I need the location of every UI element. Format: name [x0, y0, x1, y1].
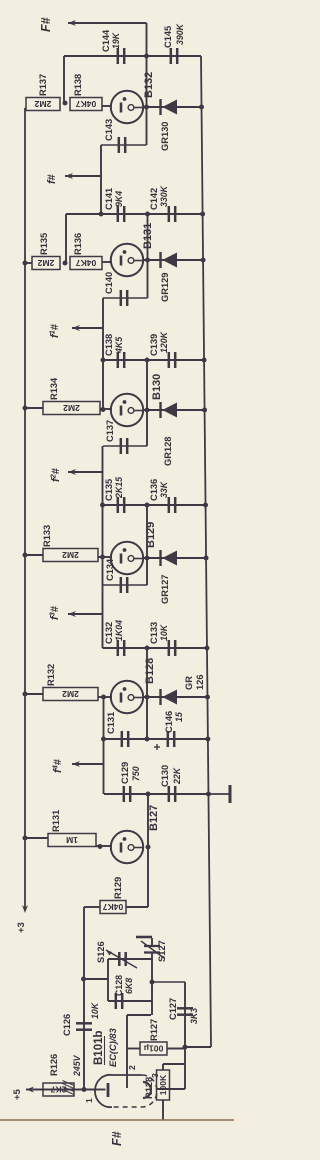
svg-text:001μ: 001μ [144, 1044, 164, 1054]
svg-text:1: 1 [84, 1098, 94, 1103]
capacitor C134 coupling drop [103, 577, 148, 593]
node grid-C126 [82, 1087, 87, 1092]
wire ground bus (bottom) [201, 56, 211, 1047]
wire R128 right [163, 1064, 185, 1070]
node base B129 [100, 555, 105, 560]
svg-text:390K: 390K [175, 23, 185, 45]
svg-text:R137: R137 [38, 74, 48, 96]
svg-text:R131: R131 [51, 810, 61, 832]
label B128 [144, 658, 156, 684]
node collector-C146 [145, 737, 150, 742]
svg-text:10K: 10K [90, 1002, 100, 1019]
wire tap F# [68, 22, 147, 24]
svg-text:2: 2 [127, 1065, 137, 1070]
resistor R133 [43, 549, 98, 562]
svg-text:750: 750 [131, 766, 141, 781]
node signal-drop tee B129 [100, 503, 105, 508]
wire F# branch [146, 23, 148, 56]
label B101b [93, 1030, 105, 1065]
svg-text:245V: 245V [72, 1054, 82, 1077]
wire R138 to base B132 [102, 105, 112, 107]
wire signal line f4 (B127 to B128 base) [103, 697, 105, 794]
node junction 113-185 [183, 1045, 188, 1050]
svg-text:R127: R127 [149, 1019, 159, 1041]
wire C126 line [83, 907, 85, 1090]
wire bus corner into R137 [25, 107, 26, 109]
wire R129 corner [83, 906, 85, 908]
svg-text:GR: GR [184, 676, 194, 690]
label C144 [101, 29, 121, 52]
svg-text:GR129: GR129 [160, 273, 170, 302]
arrowhead +3 bus left end [22, 905, 28, 913]
resistor R132 [43, 688, 98, 701]
svg-text:126: 126 [195, 674, 205, 690]
svg-text:6K8: 6K8 [124, 978, 134, 994]
label B127 [148, 805, 160, 831]
svg-text:R135: R135 [39, 233, 49, 255]
capacitor C129 [124, 786, 130, 802]
wire drop C132/C133 [103, 647, 207, 649]
wire box right edge [108, 958, 152, 960]
svg-text:C141: C141 [104, 188, 114, 210]
wire collector line B130 [146, 360, 148, 446]
label C130 [160, 765, 182, 787]
svg-text:S127: S127 [157, 940, 167, 962]
diode GR130 [161, 99, 178, 115]
capacitor C146 [168, 731, 174, 747]
trimmer S127 [141, 941, 164, 958]
hatch R126 [63, 1081, 75, 1095]
wire rail up to pin2 [127, 1014, 151, 1016]
svg-text:S126: S126 [96, 941, 106, 963]
node bus-R131 [23, 836, 28, 841]
svg-text:04K7: 04K7 [76, 99, 97, 109]
transistor B128 [111, 681, 143, 713]
label C126 [62, 1014, 72, 1036]
label R133 [42, 525, 52, 547]
label R137 [38, 74, 48, 96]
svg-text:C131: C131 [106, 712, 116, 734]
resistor R137 [26, 98, 60, 111]
svg-text:B127: B127 [148, 805, 160, 831]
wire signal line f (B131 to C143) [100, 145, 102, 214]
capacitor C139 [169, 352, 175, 368]
trimmer S126 [106, 950, 137, 968]
label GR126 [184, 674, 205, 690]
svg-text:+3: +3 [16, 922, 27, 933]
capacitor C138 [118, 352, 124, 368]
polarity mark C146 [154, 744, 160, 750]
tube grid bar [107, 1083, 110, 1097]
svg-text:R134: R134 [49, 377, 59, 400]
diode GR127 [161, 550, 178, 566]
node drop signal junction B131 [99, 212, 104, 217]
wire collector to diode [143, 106, 202, 108]
label C145 [163, 23, 185, 48]
node junction R137/R138 [63, 101, 68, 106]
node diode-bus GR128 [202, 408, 207, 413]
diode GR128 [161, 402, 178, 418]
wire R132 to base B128 [98, 696, 112, 698]
svg-text:C126: C126 [62, 1014, 72, 1036]
node base B128 [101, 695, 106, 700]
resistor R128 [157, 1070, 170, 1100]
node bus-R135 [23, 261, 28, 266]
wire junction to drop (B131) [65, 214, 67, 263]
svg-text:R136: R136 [73, 233, 83, 255]
svg-text:330K: 330K [159, 185, 169, 207]
svg-text:C128: C128 [114, 975, 124, 996]
wire S127drop [152, 981, 185, 983]
svg-text:B132: B132 [143, 72, 155, 98]
node collector B130 [145, 408, 150, 413]
node rail-link [81, 977, 86, 982]
svg-text:R126: R126 [49, 1054, 59, 1076]
svg-text:1K04: 1K04 [114, 620, 124, 641]
arrowhead tap f1# [72, 325, 80, 331]
wire drop C135/C136 [103, 504, 206, 506]
label R132 [46, 664, 56, 686]
tube anode bracket [143, 1082, 151, 1098]
wire tap f# [65, 175, 101, 177]
node drop-bus B129 [203, 503, 208, 508]
resistor R135 [32, 257, 60, 270]
wire grid entry [97, 1089, 106, 1091]
svg-text:2K15: 2K15 [114, 477, 124, 499]
wire bus to R135 [25, 262, 32, 264]
svg-text:C139: C139 [149, 334, 159, 356]
svg-text:GR130: GR130 [160, 122, 170, 151]
node collector-drop B130 [145, 358, 150, 363]
node drop-bus B127 [206, 792, 211, 797]
node collector-drop B132 [144, 54, 149, 59]
svg-text:C144: C144 [101, 29, 111, 52]
wire box top edge [107, 959, 109, 1001]
label pin 2 [127, 1065, 137, 1070]
label C139 [149, 331, 169, 356]
svg-text:04K7: 04K7 [103, 902, 124, 912]
wire bus to R134 [25, 407, 43, 409]
resistor R138 [70, 98, 102, 111]
label EC(C)/83 [108, 1027, 118, 1067]
svg-text:2M2: 2M2 [63, 403, 80, 413]
capacitor C141 [118, 206, 124, 222]
node collector B132 [144, 105, 149, 110]
wire pin2 line [126, 1015, 128, 1088]
wire collector line B131 [147, 214, 149, 298]
svg-text:1M: 1M [66, 835, 78, 845]
arrowhead tap F# [68, 20, 76, 26]
svg-text:04K7: 04K7 [76, 258, 97, 268]
svg-text:R129: R129 [113, 877, 123, 899]
node collector B128 [145, 695, 150, 700]
wire R129 top stub [84, 906, 100, 908]
wire pin3 [157, 1088, 185, 1090]
label R136 [73, 233, 83, 255]
capacitor C143 coupling drop [101, 137, 147, 153]
wire drop C129/C130 [104, 793, 208, 795]
capacitor C128 [116, 993, 122, 1009]
label f1# [48, 324, 62, 338]
node bus-R134 [23, 406, 28, 411]
diode GR129 [161, 252, 178, 268]
label f# [46, 174, 58, 184]
arrowhead tap f2# [68, 469, 76, 475]
wire bus to R133 [25, 554, 43, 556]
ground symbol [208, 785, 230, 803]
wire junction to drop (B132) [63, 56, 65, 103]
transistor B130 [111, 394, 143, 426]
label C137 [105, 420, 115, 442]
label B131 [142, 223, 154, 249]
label GR127 [160, 575, 170, 604]
svg-text:R133: R133 [42, 525, 52, 547]
node bus-R133 [23, 553, 28, 558]
label 6K8 [124, 978, 134, 994]
node C146-bus [205, 737, 210, 742]
wire R136 to base B131 [102, 261, 112, 263]
label +3 [16, 922, 27, 933]
node collector B131 [145, 258, 150, 263]
wire drop C138/C139 [103, 359, 205, 361]
wire signal line f1 (B130 base to C140) [102, 298, 104, 410]
wire drop C141/C142 [66, 213, 203, 215]
svg-text:19K: 19K [111, 32, 121, 49]
node collector B127 [146, 845, 151, 850]
svg-text:C133: C133 [149, 622, 159, 644]
wire bus to R131 [25, 837, 48, 839]
svg-text:C145: C145 [163, 26, 173, 48]
node base B130 [101, 407, 106, 412]
wire link rail to box [83, 978, 108, 980]
transistor B131 [111, 244, 143, 276]
label B129 [145, 522, 157, 548]
svg-text:B130: B130 [151, 374, 163, 400]
label f4# [51, 759, 65, 773]
label R126 [49, 1054, 59, 1076]
wire R131 to base B127 [96, 845, 112, 847]
resistor R126 [43, 1083, 74, 1096]
svg-text:C140: C140 [104, 272, 114, 294]
svg-text:2M2: 2M2 [62, 550, 79, 560]
capacitor C140 coupling drop [103, 290, 148, 306]
label 10K [90, 1002, 100, 1019]
svg-text:f4#: f4# [51, 759, 65, 773]
capacitor C135 [118, 497, 124, 513]
resistor R127 [140, 1042, 167, 1055]
wire collector line B127 [147, 794, 149, 907]
node drop-bus B131 [200, 212, 205, 217]
wire +3 supply bus (top) [24, 108, 26, 910]
capacitor C127 [177, 1008, 193, 1014]
transistor B127 [111, 831, 143, 863]
wire tap f1# [72, 327, 103, 329]
label 245V [72, 1054, 82, 1077]
node diode-bus GR129 [201, 258, 206, 263]
capacitor C144 [118, 48, 124, 64]
wire R128 left [162, 1100, 164, 1120]
capacitor C126 [76, 1023, 92, 1029]
resistor R134 [43, 402, 100, 415]
svg-text:C142: C142 [149, 188, 159, 210]
label GR130 [160, 122, 170, 151]
wire collector line B128 [146, 648, 148, 739]
svg-text:120K: 120K [159, 331, 169, 353]
node base B127 [98, 844, 103, 849]
svg-text:22K: 22K [172, 767, 182, 785]
wire R133 to base B129 [98, 556, 112, 558]
node drop-bus B130 [202, 358, 207, 363]
svg-text:F#: F# [110, 1131, 124, 1146]
node collector-drop B131 [145, 212, 150, 217]
svg-text:2K7: 2K7 [50, 1085, 66, 1095]
node collector B129 [145, 556, 150, 561]
svg-text:f2#: f2# [49, 468, 63, 482]
wire collector line B132 [146, 56, 148, 145]
resistor R129 [100, 901, 126, 914]
capacitor C133 [169, 640, 175, 656]
svg-text:100K: 100K [158, 1074, 168, 1095]
svg-text:C138: C138 [104, 334, 114, 356]
wire anode line y185 [184, 982, 186, 1089]
capacitor C132 [118, 640, 124, 656]
wire collector to diode [143, 557, 207, 559]
label C132 [104, 620, 124, 644]
svg-text:C136: C136 [149, 479, 159, 501]
label GR128 [163, 437, 173, 466]
svg-text:EC(C)/83: EC(C)/83 [108, 1027, 118, 1067]
label R127 [149, 1019, 159, 1041]
label C131 [106, 712, 116, 734]
label R138 [73, 74, 83, 96]
svg-text:+5: +5 [12, 1088, 23, 1100]
svg-text:C134: C134 [105, 558, 115, 581]
label S127 [157, 940, 167, 962]
capacitor C142 [169, 206, 175, 222]
svg-text:33K: 33K [159, 481, 169, 498]
capacitor C136 [169, 497, 175, 513]
label pin 1 [84, 1098, 94, 1103]
wire R129 to collector line [126, 906, 148, 908]
label C141 [104, 188, 124, 210]
svg-text:15: 15 [174, 712, 184, 722]
arrowhead tap f# [65, 173, 73, 179]
page margin line [0, 1119, 234, 1121]
capacitor C130 [169, 786, 175, 802]
label R129 [113, 877, 123, 899]
label f2# [49, 468, 63, 482]
wire collector line B129 [146, 505, 148, 585]
wire collector to diode [143, 409, 205, 411]
tube B101b envelope [95, 1075, 157, 1107]
wire drop to ground bus [185, 1046, 211, 1048]
svg-text:C135: C135 [104, 479, 114, 501]
label C143 [104, 119, 114, 141]
svg-text:C143: C143 [104, 119, 114, 141]
label F# output [39, 17, 53, 32]
wire tap f4# [72, 763, 104, 765]
label pin 3 [150, 1073, 160, 1078]
capacitor C131 [122, 731, 128, 747]
wire R127 stub bottom [167, 1048, 185, 1050]
svg-text:10K: 10K [159, 624, 169, 641]
svg-text:3K3: 3K3 [189, 1008, 199, 1024]
node signal-C131 tee [101, 737, 106, 742]
svg-text:B128: B128 [144, 658, 156, 684]
label C128 [114, 975, 124, 996]
svg-text:4K5: 4K5 [114, 337, 124, 354]
capacitor C137 coupling drop [103, 438, 147, 454]
wire bus to R132 [25, 693, 43, 695]
wire collector to diode [143, 696, 208, 698]
svg-text:2M2: 2M2 [62, 689, 79, 699]
svg-text:f1#: f1# [48, 324, 62, 338]
wire drop C144/C145 [64, 55, 201, 57]
label C136 [149, 479, 169, 501]
label C146 [164, 711, 184, 733]
label R128 [144, 1077, 154, 1099]
diode GR126 [161, 689, 178, 705]
wire R127 stub top [127, 1048, 140, 1050]
node collector-drop B127 [146, 792, 151, 797]
node collector-drop B129 [145, 503, 150, 508]
label GR129 [160, 273, 170, 302]
node diode-bus GR130 [199, 105, 204, 110]
node rail-S127drop [150, 980, 155, 985]
label C134 [105, 558, 115, 581]
svg-text:C130: C130 [160, 765, 170, 787]
label B130 [151, 374, 163, 400]
resistor R136 [70, 257, 102, 270]
wire coupling drop C131/C146 [104, 738, 208, 740]
label R134 [49, 377, 59, 400]
capacitor C145 [171, 48, 177, 64]
node diode-bus GR126 [205, 695, 210, 700]
label f3# [48, 606, 62, 620]
label C138 [104, 334, 124, 356]
wire collector to diode [143, 259, 204, 261]
wire tap f2# [68, 471, 103, 473]
label C129 [120, 762, 141, 784]
node drop-bus B128 [204, 646, 209, 651]
label C142 [149, 185, 169, 210]
label +5 [12, 1088, 23, 1100]
svg-text:C127: C127 [168, 998, 178, 1020]
label B132 [143, 72, 155, 98]
node bus-R132 [23, 692, 28, 697]
svg-text:R138: R138 [73, 74, 83, 96]
svg-text:GR128: GR128 [163, 437, 173, 466]
svg-text:C129: C129 [120, 762, 130, 784]
svg-text:9K4: 9K4 [114, 191, 124, 207]
node junction R135/R136 [63, 261, 68, 266]
label S126 [96, 941, 106, 963]
transistor B132 [111, 91, 143, 123]
transistor B129 [111, 542, 143, 574]
wire tap f3# [68, 613, 103, 615]
wire R134 to base B130 [100, 408, 112, 410]
label C127 [168, 998, 178, 1020]
label F# section [110, 1131, 124, 1146]
arrowhead tap f4# [72, 761, 80, 767]
svg-text:f#: f# [46, 174, 58, 184]
node signal-drop tee B130 [101, 358, 106, 363]
svg-text:F#: F# [39, 17, 53, 32]
svg-text:C132: C132 [104, 622, 114, 644]
resistor R131 [48, 834, 96, 847]
svg-text:2M2: 2M2 [37, 258, 54, 268]
wire grid line from +5 [26, 1089, 97, 1091]
